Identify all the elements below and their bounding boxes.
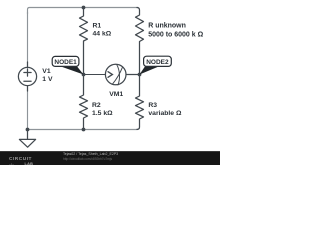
node NODE1 callout [52, 56, 83, 74]
voltmeter left lead [84, 74, 106, 76]
voltmeter chevron [108, 72, 112, 78]
svg-text:R1: R1 [93, 23, 102, 30]
svg-text:1 V: 1 V [42, 76, 53, 83]
node NODE2 callout [140, 56, 172, 74]
svg-text:R unknown: R unknown [148, 23, 186, 30]
voltage source V1 leads [27, 62, 29, 91]
watermark text line 2 [63, 157, 112, 161]
svg-text:NODE1: NODE1 [54, 59, 77, 66]
junction R1 top [82, 6, 86, 10]
watermark text line 1 [63, 152, 118, 156]
svg-text:R2: R2 [92, 102, 101, 109]
voltage source V1 [18, 67, 36, 85]
svg-text:1.5 kΩ: 1.5 kΩ [92, 110, 113, 117]
svg-text:44 kΩ: 44 kΩ [93, 31, 112, 38]
wire left vertical upper [27, 12, 29, 63]
CircuitLab logo [9, 157, 32, 162]
voltmeter needle [112, 67, 122, 84]
voltmeter dial arc [117, 65, 120, 85]
resistor R2 with leads [80, 75, 88, 130]
resistor R1 with leads [80, 8, 88, 75]
ground [19, 130, 35, 148]
junction bottom R2 [82, 128, 86, 132]
junction node1 [82, 73, 86, 77]
svg-text:V1: V1 [42, 68, 51, 75]
wire left vertical lower [27, 91, 29, 130]
svg-text:NODE2: NODE2 [146, 59, 169, 66]
svg-text:R3: R3 [148, 102, 157, 109]
svg-text:VM1: VM1 [109, 91, 123, 98]
voltmeter right lead [126, 74, 140, 76]
svg-text:variable Ω: variable Ω [148, 110, 182, 117]
junction bottom left [26, 128, 30, 132]
junction node2 [138, 73, 142, 77]
resistor R unknown with leads [136, 8, 144, 75]
footer bar [0, 151, 220, 167]
wire top [28, 8, 139, 15]
svg-text:5000 to 6000 k Ω: 5000 to 6000 k Ω [148, 31, 203, 38]
voltmeter VM1 [105, 64, 126, 85]
resistor R3 with leads [136, 75, 144, 130]
wire bottom [28, 129, 138, 131]
